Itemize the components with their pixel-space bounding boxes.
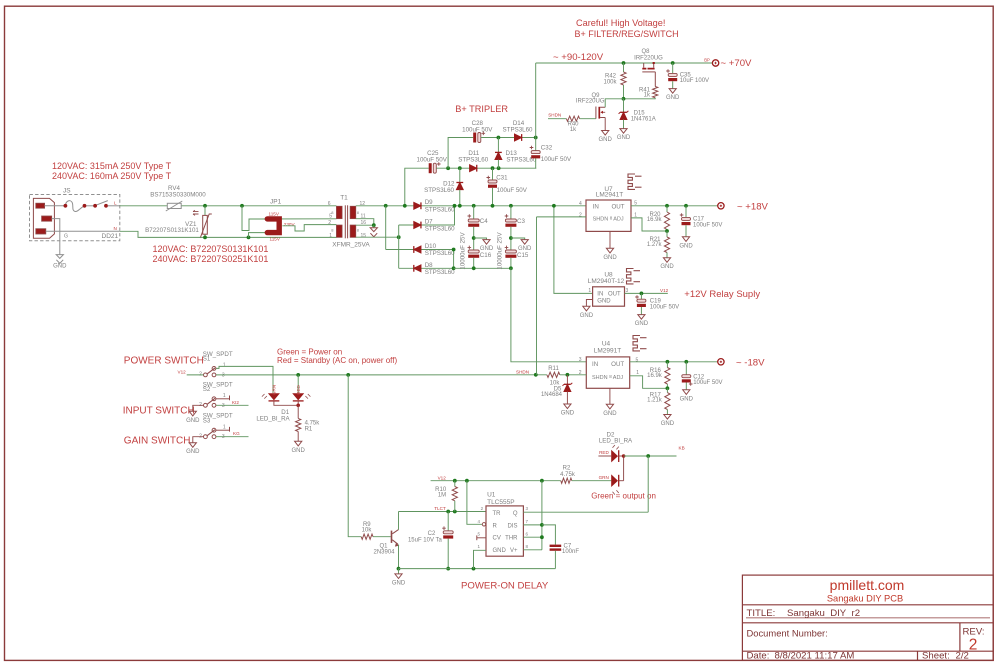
resistor R2 xyxy=(561,478,572,483)
junction xyxy=(240,204,244,208)
wire JP1 bottom pad xyxy=(249,233,267,238)
junction xyxy=(491,166,495,170)
wire SHDN to D1 red anode xyxy=(297,375,299,393)
svg-text:GND: GND xyxy=(561,411,575,417)
svg-text:STPS3L60: STPS3L60 xyxy=(425,269,455,276)
svg-text:2: 2 xyxy=(969,637,978,654)
junction xyxy=(453,479,457,483)
connector pin G xyxy=(42,216,52,221)
svg-text:IRF220UG: IRF220UG xyxy=(576,99,605,105)
junction xyxy=(458,204,462,208)
resistor R10 xyxy=(454,481,456,487)
junction xyxy=(472,236,476,240)
wire Q to KB xyxy=(647,456,649,512)
connector pin N xyxy=(36,229,46,234)
wire S3 pin1 stub xyxy=(216,429,230,431)
wire C3 to C15 xyxy=(510,227,512,250)
junction xyxy=(403,204,407,208)
switch S3 SW_SPDT xyxy=(204,435,208,439)
svg-text:LED_BI_RA: LED_BI_RA xyxy=(599,437,633,444)
junction xyxy=(203,236,207,240)
wire SHDN vertical to U7 xyxy=(536,217,538,375)
ground C3/C15 mid xyxy=(511,238,525,240)
svg-text:Sheet:: Sheet: xyxy=(922,651,950,662)
svg-text:RED: RED xyxy=(296,384,301,394)
LED D1 green xyxy=(268,393,280,400)
earth ground secondary xyxy=(373,225,375,228)
junction xyxy=(472,567,476,571)
svg-text:TLCT: TLCT xyxy=(434,506,446,511)
wire S3 out KG xyxy=(216,436,249,438)
svg-text:pmillett.com: pmillett.com xyxy=(830,577,905,593)
junction xyxy=(509,266,513,270)
junction xyxy=(465,479,469,483)
svg-text:GND: GND xyxy=(679,243,693,249)
wire TLCT rail xyxy=(399,511,487,513)
svg-text:C31: C31 xyxy=(496,175,508,182)
junction xyxy=(472,204,476,208)
capacitor C35 xyxy=(672,63,674,73)
capacitor C31 xyxy=(492,168,494,180)
resistor R9 xyxy=(361,534,373,539)
svg-text:C15: C15 xyxy=(517,252,529,259)
svg-text:3: 3 xyxy=(222,372,225,378)
svg-text:STPS3L60: STPS3L60 xyxy=(425,250,455,257)
wire C7 bottom xyxy=(554,551,556,569)
junction xyxy=(203,204,207,208)
junction xyxy=(666,360,670,364)
svg-text:DIS: DIS xyxy=(507,523,517,529)
wire N pin to box edge xyxy=(46,230,120,232)
junction xyxy=(296,404,300,408)
svg-text:120VAC: 315mA 250V Type T: 120VAC: 315mA 250V Type T xyxy=(52,161,172,171)
svg-text:1.21k: 1.21k xyxy=(647,398,663,404)
svg-text:2: 2 xyxy=(579,213,582,219)
svg-text:D8: D8 xyxy=(425,262,433,269)
junction xyxy=(666,386,670,390)
junction xyxy=(446,166,450,170)
diode D7 xyxy=(399,206,455,225)
svg-text:GND: GND xyxy=(186,449,200,455)
capacitor C19 xyxy=(640,293,642,299)
svg-text:Q8: Q8 xyxy=(641,49,650,55)
svg-text:GRN: GRN xyxy=(272,385,277,395)
ground C4/C16 mid xyxy=(474,238,487,240)
svg-text:JS: JS xyxy=(63,188,71,195)
svg-text:BS7153S0330M000: BS7153S0330M000 xyxy=(150,191,206,198)
wire KB xyxy=(624,455,677,457)
svg-text:3: 3 xyxy=(626,288,629,294)
svg-text:GND: GND xyxy=(635,321,649,327)
svg-text:C32: C32 xyxy=(541,144,553,151)
terminal +18V xyxy=(718,203,724,209)
junction xyxy=(497,136,501,140)
wire U8 GND xyxy=(586,300,592,307)
junction xyxy=(509,204,513,208)
junction xyxy=(452,266,456,270)
svg-text:6: 6 xyxy=(328,201,331,207)
svg-text:100nF: 100nF xyxy=(562,549,579,555)
wire U1 R pin xyxy=(467,481,482,525)
svg-text:~ +70V: ~ +70V xyxy=(721,58,753,69)
svg-text:R2: R2 xyxy=(563,465,571,471)
connector pin L xyxy=(36,203,45,208)
svg-text:Red = Standby (AC on, power of: Red = Standby (AC on, power off) xyxy=(277,356,397,365)
wire JP1 link xyxy=(242,206,336,231)
resistor R17 xyxy=(666,388,668,392)
svg-text:S1: S1 xyxy=(203,356,211,363)
svg-text:10uF 100V: 10uF 100V xyxy=(680,78,709,84)
svg-text:TLC555P: TLC555P xyxy=(487,499,514,506)
wire +90-120V rail xyxy=(536,62,713,64)
wire D9-D10 vertical xyxy=(385,206,387,250)
jumper JP1 xyxy=(267,219,279,233)
svg-text:G: G xyxy=(64,233,68,239)
wire U4 ADJ xyxy=(630,376,668,389)
wire U7 SHDN xyxy=(537,216,587,218)
wire S2 pin1 stub xyxy=(216,398,230,400)
svg-text:100uF 50V: 100uF 50V xyxy=(462,127,493,134)
svg-text:GND: GND xyxy=(53,264,67,270)
svg-text:15: 15 xyxy=(361,233,367,239)
wire D1 cathodes join xyxy=(274,401,298,405)
svg-text:10k: 10k xyxy=(362,528,373,534)
svg-text:1: 1 xyxy=(329,233,332,239)
diode D11 xyxy=(470,165,477,172)
diode D13 xyxy=(497,138,499,153)
svg-text:ADJ: ADJ xyxy=(613,375,624,381)
junction xyxy=(540,535,544,539)
svg-text:GND: GND xyxy=(661,421,675,427)
svg-text:GAIN SWITCH: GAIN SWITCH xyxy=(124,436,191,447)
wire U4 GND stub xyxy=(609,388,611,404)
svg-text:GND: GND xyxy=(580,313,594,319)
op-amp U1 TLC555P xyxy=(486,506,523,556)
svg-text:TR: TR xyxy=(493,511,502,517)
svg-text:12: 12 xyxy=(360,201,366,207)
wire D2 cathodes join xyxy=(619,455,624,457)
wire C28 to D14 xyxy=(481,137,536,139)
capacitor C4 xyxy=(473,206,475,219)
varistor VZ1 xyxy=(204,206,206,216)
svg-text:10000uF 25V: 10000uF 25V xyxy=(497,232,504,270)
svg-text:1k: 1k xyxy=(644,93,651,99)
svg-text:LED_BI_RA: LED_BI_RA xyxy=(256,415,290,422)
wire Q9 drain xyxy=(605,99,623,108)
wire U7 ADJ xyxy=(631,218,667,231)
junction xyxy=(453,204,457,208)
wire V12 down to V+ xyxy=(541,481,543,550)
junction xyxy=(472,266,476,270)
svg-text:Q: Q xyxy=(513,511,518,517)
wire U1 CV stub xyxy=(477,537,486,539)
diode D10 xyxy=(386,249,454,251)
title block xyxy=(742,575,993,660)
junction xyxy=(446,567,450,571)
op-amp U4 LM2991T xyxy=(586,357,629,388)
wire C32 bottom xyxy=(535,158,538,168)
svg-text:+12V Relay Suply: +12V Relay Suply xyxy=(684,289,760,300)
junction xyxy=(684,204,688,208)
wire D10-D8 join xyxy=(453,250,455,269)
svg-text:4.75k: 4.75k xyxy=(560,472,576,478)
svg-text:1: 1 xyxy=(636,370,639,376)
svg-text:SHDN: SHDN xyxy=(592,375,608,381)
svg-text:C4: C4 xyxy=(480,218,488,225)
svg-text:STPS3L60: STPS3L60 xyxy=(503,127,533,134)
capacitor C3 xyxy=(510,206,512,219)
junction xyxy=(684,360,688,364)
wire tripler row mid xyxy=(405,168,429,206)
svg-text:DD21: DD21 xyxy=(102,233,119,240)
wire DIS to C7 xyxy=(542,525,556,545)
svg-text:POWER-ON DELAY: POWER-ON DELAY xyxy=(461,581,549,592)
svg-text:KG: KG xyxy=(233,431,240,436)
diode D12 xyxy=(459,168,461,182)
switch S2 SW_SPDT xyxy=(204,403,208,407)
wire S2 out KI2 xyxy=(216,404,249,406)
junction xyxy=(622,61,626,65)
wire N rail xyxy=(120,231,337,237)
wire Q1 emitter to bottom rail xyxy=(398,545,400,569)
svg-text:KB: KB xyxy=(679,445,685,450)
svg-text:R1: R1 xyxy=(305,426,313,432)
svg-text:U1: U1 xyxy=(487,491,496,498)
svg-text:GND: GND xyxy=(493,548,507,554)
svg-text:GND: GND xyxy=(186,418,200,424)
svg-text:R: R xyxy=(493,523,498,529)
wire L rail xyxy=(120,205,168,207)
resistor R16 xyxy=(666,362,668,368)
svg-text:GND: GND xyxy=(666,95,680,101)
junction xyxy=(453,510,457,514)
resistor R21 xyxy=(666,231,668,237)
junction xyxy=(458,166,462,170)
svg-text:230V: 230V xyxy=(284,222,296,227)
svg-text:THR: THR xyxy=(505,536,518,542)
diode D8 xyxy=(399,267,454,269)
svg-text:GND: GND xyxy=(603,411,617,417)
wire secondary bottom xyxy=(356,236,399,238)
wire U1 THR xyxy=(523,536,542,538)
wire delay bottom rail xyxy=(399,568,556,570)
svg-text:10000uF 25V: 10000uF 25V xyxy=(460,232,467,270)
junction xyxy=(566,373,570,377)
svg-text:STPS3L60: STPS3L60 xyxy=(424,187,454,194)
svg-text:GND: GND xyxy=(599,137,613,143)
svg-text:IN: IN xyxy=(592,361,598,368)
junction xyxy=(452,248,456,252)
op-amp U8 LM2940T-12 xyxy=(593,287,625,306)
svg-text:C3: C3 xyxy=(517,218,525,225)
junction xyxy=(296,373,300,377)
junction xyxy=(446,510,450,514)
package icon U7 xyxy=(628,174,635,189)
svg-text:1: 1 xyxy=(223,393,226,399)
svg-text:LM2991T: LM2991T xyxy=(594,347,621,354)
svg-text:GND: GND xyxy=(617,135,631,141)
capacitor C28 xyxy=(473,133,476,143)
wire SHDN row right part xyxy=(505,374,547,376)
svg-text:1k: 1k xyxy=(570,127,577,133)
svg-text:CV: CV xyxy=(493,536,501,542)
wire U4 OUT -18V xyxy=(630,361,718,363)
junction xyxy=(491,204,495,208)
svg-text:Careful! High Voltage!: Careful! High Voltage! xyxy=(576,18,665,28)
svg-text:TITLE:: TITLE: xyxy=(747,608,776,619)
junction xyxy=(509,236,513,240)
svg-text:1: 1 xyxy=(588,288,591,294)
svg-text:STPS3L60: STPS3L60 xyxy=(458,157,488,164)
wire V12 rail delay xyxy=(431,480,561,482)
wire negative rail xyxy=(454,267,511,269)
svg-text:R11: R11 xyxy=(548,366,559,372)
svg-text:T1: T1 xyxy=(340,195,348,202)
wire L pin to fuse xyxy=(45,205,66,207)
svg-text:C16: C16 xyxy=(480,252,492,259)
junction xyxy=(646,454,650,458)
svg-text:Date:: Date: xyxy=(747,651,770,662)
svg-text:GND: GND xyxy=(392,580,406,586)
junction xyxy=(534,373,538,377)
svg-text:KI2: KI2 xyxy=(232,400,239,405)
junction xyxy=(665,229,669,233)
svg-text:INPUT SWITCH: INPUT SWITCH xyxy=(123,406,195,417)
svg-text:Sangaku DIY PCB: Sangaku DIY PCB xyxy=(827,594,903,604)
svg-text:S2: S2 xyxy=(203,386,211,393)
svg-text:IN: IN xyxy=(593,203,599,210)
svg-text:3: 3 xyxy=(222,434,225,440)
junction xyxy=(384,204,388,208)
connector JS dashed box xyxy=(30,195,120,241)
svg-text:SHDN: SHDN xyxy=(548,113,561,118)
wire U7 OUT +18V xyxy=(631,205,718,207)
wire SHDN branch down to R9 xyxy=(348,375,361,537)
svg-text:100k: 100k xyxy=(603,79,617,85)
wire secondary top to rail xyxy=(356,205,586,207)
wire S1 pin1 to GRN LED xyxy=(216,366,273,393)
svg-text:D9: D9 xyxy=(425,199,433,206)
svg-text:GND: GND xyxy=(292,448,306,454)
wire C28 branch xyxy=(448,138,473,169)
wire S3 common to GND xyxy=(193,437,204,443)
fuse RV4 xyxy=(167,203,181,208)
svg-text:115V: 115V xyxy=(270,237,281,242)
wire G pin to GND xyxy=(52,219,60,255)
svg-text:100uF 50V: 100uF 50V xyxy=(417,157,448,164)
wire U8 OUT V12 xyxy=(625,292,668,294)
svg-text:V+: V+ xyxy=(510,548,518,554)
svg-text:16.9k: 16.9k xyxy=(647,217,663,223)
wire switch to box edge xyxy=(108,205,120,207)
svg-text:BP: BP xyxy=(704,57,710,62)
svg-text:2/2: 2/2 xyxy=(956,651,969,662)
svg-text:120VAC: B72207S0131K101: 120VAC: B72207S0131K101 xyxy=(153,244,269,254)
wire Q9 source to GND xyxy=(604,118,606,131)
zener D15 xyxy=(623,99,625,113)
LED D1 red xyxy=(292,393,304,400)
wire SHDN from S1 xyxy=(216,374,505,376)
wire negative rail to U4 xyxy=(511,268,586,362)
junction xyxy=(372,223,376,227)
svg-text:1M: 1M xyxy=(438,493,446,499)
svg-text:B72207S0131K101: B72207S0131K101 xyxy=(145,227,199,234)
wire U1 DIS xyxy=(523,524,542,526)
svg-text:100uF 50V: 100uF 50V xyxy=(497,187,528,194)
svg-text:240VAC: B72207S0251K101: 240VAC: B72207S0251K101 xyxy=(153,254,269,264)
junction xyxy=(397,235,401,239)
svg-text:V12: V12 xyxy=(438,475,447,480)
wire U7 GND stub xyxy=(609,231,611,248)
wire V12 to S1 xyxy=(187,374,204,376)
capacitor C2 xyxy=(447,512,449,531)
capacitor C7 xyxy=(550,545,562,547)
connector JS body xyxy=(33,198,54,238)
svg-text:8/8/2021 11:17 AM: 8/8/2021 11:17 AM xyxy=(775,651,855,662)
capacitor C17 xyxy=(685,206,687,218)
svg-text:1: 1 xyxy=(223,424,226,430)
svg-text:N: N xyxy=(114,226,117,231)
earth ground JS xyxy=(56,255,63,259)
svg-text:L: L xyxy=(114,201,117,206)
svg-text:V12: V12 xyxy=(178,370,187,375)
svg-text:~ -18V: ~ -18V xyxy=(736,357,765,368)
svg-text:OUT: OUT xyxy=(611,361,624,368)
svg-text:GND: GND xyxy=(597,298,611,304)
resistor R41 xyxy=(653,87,658,98)
transistor Q8 xyxy=(642,62,655,72)
svg-text:IN: IN xyxy=(597,292,603,298)
svg-text:C2: C2 xyxy=(428,531,436,537)
svg-text:3: 3 xyxy=(579,357,582,363)
svg-text:OUT: OUT xyxy=(611,203,624,210)
svg-text:B+ FILTER/REG/SWITCH: B+ FILTER/REG/SWITCH xyxy=(575,29,679,39)
junction xyxy=(534,136,538,140)
diode D9 xyxy=(414,202,421,209)
wire C4 to C16 xyxy=(473,227,475,250)
svg-text:2N3904: 2N3904 xyxy=(373,549,395,555)
wire Q8 gate to R41 xyxy=(654,72,656,87)
svg-text:100uF 50V: 100uF 50V xyxy=(693,223,722,229)
transistor Q1 2N3904 xyxy=(392,530,399,546)
svg-text:D10: D10 xyxy=(425,243,437,250)
svg-text:V12: V12 xyxy=(660,288,669,293)
wire rail to U8 IN xyxy=(554,206,593,294)
junction xyxy=(346,373,350,377)
wire secondary center tap xyxy=(356,219,374,226)
svg-text:Document Number:: Document Number: xyxy=(747,628,828,639)
capacitor C15 xyxy=(505,250,516,253)
wire C25 to D11 xyxy=(436,167,536,169)
svg-text:OUT: OUT xyxy=(608,292,621,298)
wire C15 to negative rail xyxy=(510,258,512,269)
ground Q1 xyxy=(398,569,400,574)
svg-text:100uF 50V: 100uF 50V xyxy=(541,156,572,163)
svg-text:240VAC: 160mA 250V Type T: 240VAC: 160mA 250V Type T xyxy=(52,171,172,181)
diode D14 xyxy=(515,134,522,141)
wire Q1 collector to TLCT xyxy=(398,512,400,530)
fuse xyxy=(65,201,84,212)
svg-text:STPS3L60: STPS3L60 xyxy=(425,206,455,213)
svg-text:Sangaku_DIY_r2: Sangaku_DIY_r2 xyxy=(787,608,860,619)
svg-text:~ +18V: ~ +18V xyxy=(737,201,769,212)
terminal -18V xyxy=(718,359,724,365)
svg-text:B+ TRIPLER: B+ TRIPLER xyxy=(455,104,508,114)
junction xyxy=(540,479,544,483)
svg-text:IRF220UG: IRF220UG xyxy=(634,55,663,61)
svg-text:POWER SWITCH: POWER SWITCH xyxy=(124,356,204,367)
op-amp U7 LM2941T xyxy=(586,200,631,231)
